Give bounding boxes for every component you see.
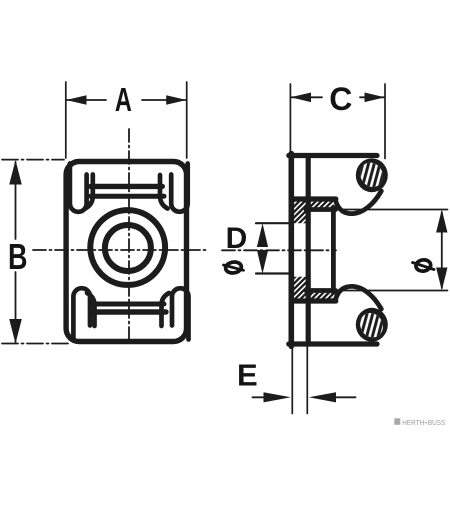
wire dim B extension top (dash-dot) [2,159,64,161]
wire top slot left leg [85,175,93,209]
wire boss top outline [294,196,336,201]
wire plate right face [306,156,311,344]
wire dim phi-right extension top [337,209,448,211]
svg-text:E: E [237,357,258,392]
wire bottom slot upper bar [93,302,165,307]
node outer circle [90,210,165,285]
wire boss hole right border [331,208,336,293]
wire boss bottom outline [294,298,336,303]
wire saddle curve bottom [336,286,382,309]
wire saddle curve top [336,191,382,214]
wire right view left face [288,154,294,347]
wire dim E leader right [334,396,356,398]
node dim E arrow left [264,392,291,402]
wire dim D extension top [256,222,291,224]
node dim C arrow left [291,93,312,103]
node dim phi-right arrow down [436,268,447,291]
node dim B arrow down [9,319,22,344]
wire top slot lower bar [91,194,165,199]
wire dim C extension right [384,84,386,159]
wire bottom slot right leg [162,293,170,326]
node watermark herth+buss [394,418,445,427]
svg-text:C: C [329,81,352,117]
svg-text:HERTH+BUSS: HERTH+BUSS [402,418,445,427]
wire boss hole top edge [306,207,336,212]
wire dim A line [66,99,187,101]
node pad bottom-right [172,288,189,339]
wire dim phi-right line [441,212,443,288]
wire right view bottom edge [289,341,377,346]
node phi symbol left [224,261,244,274]
node arm section bottom (hatched ellipse) [356,308,388,342]
wire bottom slot lower bar [93,309,167,314]
node left-view centerline vertical [128,129,130,341]
node phi symbol right [413,259,435,272]
node arm section top (hatched ellipse) [356,158,388,192]
node pad top-left [70,164,87,212]
svg-text:D: D [226,222,248,255]
wire body outline left view [66,162,186,342]
node dim A arrow right [166,95,187,105]
wire right view left face extension down (E) [291,346,293,414]
node dim C arrow right [365,93,386,103]
wire dim B extension bottom (dash-dot) [2,343,68,345]
node inner circle [105,225,151,271]
node pad top-right [171,164,188,212]
wire dim A extension left [65,82,67,158]
wire right view top edge [289,153,377,158]
node boss hatch top [294,202,334,224]
node pad bottom-left [73,288,90,339]
svg-text:A: A [115,81,132,118]
node dim D arrow down [257,250,268,274]
node dim D arrow up [257,223,268,247]
wire dim E leader left [253,396,267,398]
node left-view centerline horizontal [33,249,207,251]
wire top slot right leg [160,175,168,209]
wire dim A extension right [186,82,188,158]
wire dim D extension bottom [256,272,291,274]
wire top slot upper bar [91,184,163,189]
node dim B arrow up [9,160,22,185]
node dim E arrow right [309,392,336,402]
wire dim B line [15,162,17,342]
node dim phi-right arrow up [436,210,447,233]
wire dim C line [291,96,385,98]
svg-text:B: B [8,236,27,277]
node right-view centerline horizontal [222,249,336,251]
wire right view left face extension up (C) [289,84,291,153]
wire dim phi-right extension bottom [337,290,448,292]
node dim A arrow left [66,95,87,105]
wire plate right face extension down (E) [306,346,308,414]
node boss hatch bottom [294,277,334,299]
wire bottom slot left leg [87,293,95,326]
wire boss hole bottom edge [306,288,336,293]
